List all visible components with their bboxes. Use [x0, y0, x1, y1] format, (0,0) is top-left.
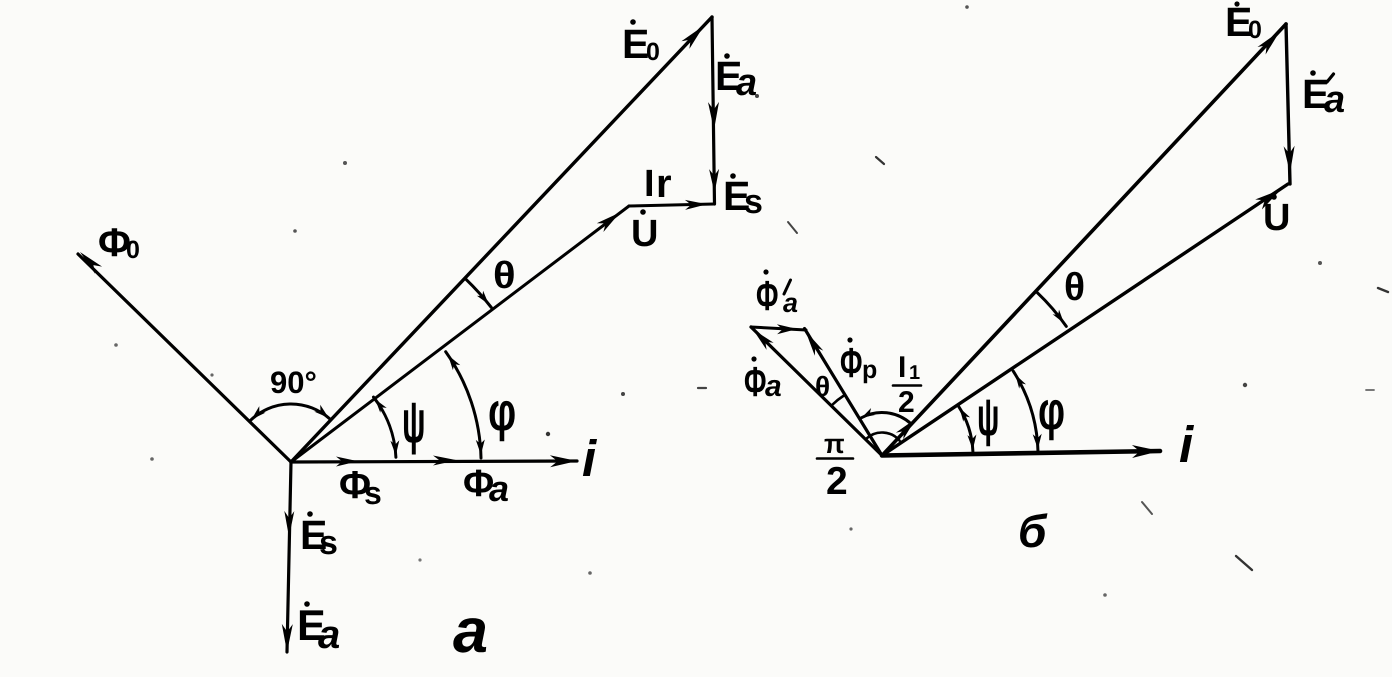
svg-text:s: s: [319, 524, 338, 562]
label E_0 (left): [622, 19, 660, 67]
vector I (current axis, right diagram): [882, 445, 1160, 458]
arc psi (right): [958, 406, 976, 452]
label 90 degrees (left): [270, 365, 317, 400]
svg-text:a: a: [489, 468, 509, 509]
svg-text:θ: θ: [493, 255, 516, 297]
vector E_0 (left): [291, 17, 712, 462]
label pi over 2 (right): [817, 429, 853, 503]
arc phi (left): [446, 352, 485, 458]
label phi (left): [488, 382, 516, 442]
arc pi/2 inner (right): [866, 433, 899, 441]
label i (current, left): [582, 430, 598, 487]
arc theta (left): [466, 279, 491, 307]
svg-text:s: s: [364, 475, 382, 511]
arc theta small (right): [833, 396, 844, 405]
label E_a (left top): [715, 53, 757, 104]
label Phi_0 (left): [98, 221, 140, 265]
svg-text:a: a: [783, 288, 798, 318]
svg-text:0: 0: [126, 236, 140, 264]
arc phi (right): [1013, 371, 1041, 452]
vector I (current axis, left diagram): [291, 455, 577, 467]
label phi (right): [1038, 381, 1065, 441]
svg-text:Φ: Φ: [840, 339, 862, 386]
vector Phi_p (right): [805, 329, 883, 456]
svg-text:ψ: ψ: [402, 388, 426, 455]
svg-text:1: 1: [909, 362, 920, 384]
svg-text:θ: θ: [1064, 266, 1085, 309]
svg-text:a: a: [1324, 79, 1345, 121]
svg-text:I: I: [644, 163, 655, 205]
svg-text:0: 0: [646, 38, 660, 66]
svg-text:p: p: [862, 356, 877, 384]
label Phi_q (right): [744, 356, 782, 405]
label I1 over 2 (right): [893, 351, 921, 419]
svg-text:2: 2: [898, 386, 915, 419]
svg-text:0: 0: [1248, 16, 1262, 44]
arc theta big (right): [1037, 293, 1066, 327]
svg-text:ψ: ψ: [977, 387, 999, 447]
arc 90 degrees (left): [250, 404, 329, 421]
vector E_s / E_a downward (left): [282, 462, 295, 652]
label psi (right): [977, 387, 999, 447]
segment Ir (left): [629, 200, 714, 210]
svg-text:U: U: [1263, 197, 1290, 239]
label U (left): [631, 209, 658, 255]
vector Phi_q (right): [751, 327, 882, 456]
vector U (left): [291, 206, 629, 462]
svg-text:i: i: [1179, 416, 1195, 473]
svg-text:U: U: [631, 213, 658, 255]
svg-text:90°: 90°: [270, 365, 317, 400]
svg-text:θ: θ: [815, 371, 830, 402]
label Phi_a (left): [463, 463, 509, 509]
label psi (left): [402, 388, 426, 455]
svg-text:i: i: [582, 430, 598, 487]
segment Phi_a-prime top (right): [751, 324, 806, 334]
svg-text:а: а: [453, 596, 488, 666]
label Ir (left): [644, 162, 672, 206]
flux arrow Phi_s on I axis (left): [336, 457, 358, 467]
svg-text:I: I: [898, 351, 906, 384]
label theta big (right): [1064, 266, 1085, 309]
label i (current, right): [1179, 416, 1195, 473]
svg-text:2: 2: [826, 460, 848, 503]
svg-text:φ: φ: [1038, 381, 1065, 441]
svg-text:a: a: [318, 613, 340, 657]
label E_a (left bottom): [297, 601, 340, 657]
label theta (left): [493, 255, 516, 297]
arc pi/2 outer (right): [861, 408, 911, 424]
svg-text:a: a: [765, 370, 782, 403]
label theta small (right): [815, 371, 830, 402]
svg-text:r: r: [656, 162, 672, 206]
segment E_a and E_s vertical (left top): [708, 17, 719, 204]
label b (diagram letter): [1018, 505, 1048, 557]
label E_s (left bottom): [300, 511, 338, 562]
label E_0 (right): [1225, 0, 1262, 45]
label Phi_p (right): [840, 337, 877, 386]
vector Phi_0 (left): [78, 252, 291, 462]
label E_s (left top): [723, 173, 763, 221]
label Phi_a-prime (right): [756, 269, 798, 319]
svg-text:Φ: Φ: [744, 358, 766, 405]
label E_a-prime (right): [1302, 70, 1345, 121]
vector U (right): [882, 184, 1288, 456]
svg-text:Φ: Φ: [756, 272, 778, 319]
label a (diagram letter): [453, 596, 488, 666]
svg-text:s: s: [744, 183, 763, 221]
svg-text:a: a: [736, 62, 757, 104]
arc psi (left): [374, 397, 400, 457]
arrow I1/2 on E_0 line (right): [896, 419, 916, 440]
label Phi_s (left): [339, 464, 382, 511]
svg-text:б: б: [1018, 505, 1048, 557]
svg-text:π: π: [824, 429, 845, 459]
label U (right): [1263, 194, 1290, 239]
svg-text:φ: φ: [488, 382, 516, 442]
flux arrow Phi_a on I axis (left): [433, 456, 457, 466]
segment E_a-prime vertical (right): [1284, 24, 1295, 184]
vector E_0 (right): [882, 24, 1286, 456]
